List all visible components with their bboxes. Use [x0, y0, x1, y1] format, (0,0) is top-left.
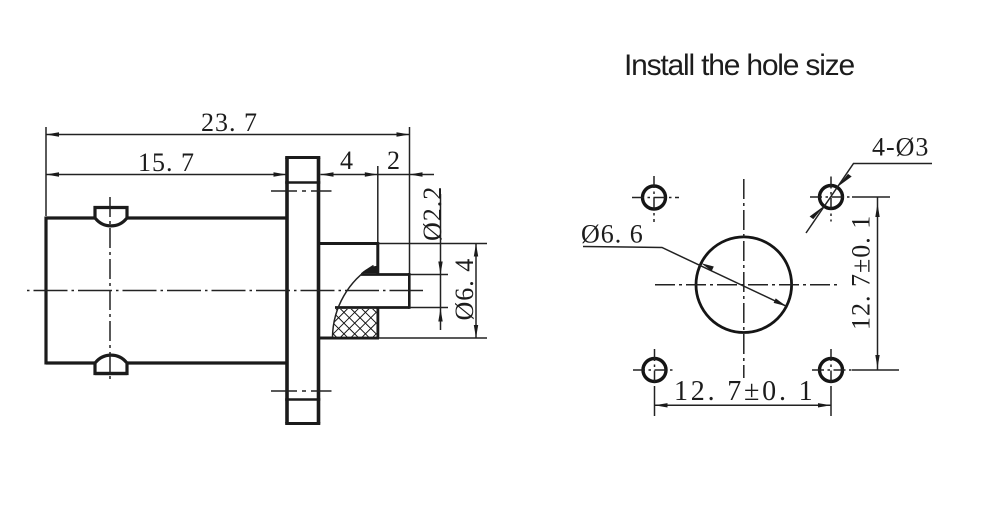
svg-text:Install the hole size: Install the hole size — [624, 49, 854, 82]
extension below bottom-right hole — [830, 388, 832, 416]
extension line left x=46 — [45, 127, 47, 216]
tube end cap — [408, 273, 411, 309]
crosshatched braid block — [332, 309, 376, 337]
center hole horizontal centerline — [655, 284, 837, 286]
rear cylinder top edge — [319, 242, 379, 245]
dimension 12.7±0.1 vertical (right) — [847, 197, 900, 370]
svg-text:2: 2 — [387, 146, 401, 175]
svg-text:4: 4 — [340, 146, 354, 175]
flange (mounting plate) — [287, 158, 319, 424]
dimension 15.7 — [46, 148, 287, 177]
step edge — [376, 242, 379, 275]
svg-text:23. 7: 23. 7 — [201, 108, 258, 137]
flange hole edge lines — [285, 183, 320, 400]
svg-text:15. 7: 15. 7 — [138, 148, 195, 177]
svg-text:Ø6. 6: Ø6. 6 — [581, 220, 644, 249]
dimension Ø2.2 — [410, 186, 449, 330]
svg-text:12. 7±0. 1: 12. 7±0. 1 — [674, 376, 815, 407]
center hole vertical centerline — [743, 179, 745, 378]
dimension 12.7±0.1 horizontal (bottom) — [655, 376, 832, 408]
top bayonet lug — [95, 208, 127, 226]
extension below bottom-left hole — [654, 388, 656, 416]
dimension 23.7 — [46, 108, 410, 137]
extension line right x=409.5 — [409, 127, 411, 273]
mounting hole top-right — [820, 186, 843, 209]
svg-text:12. 7±0. 1: 12. 7±0. 1 — [847, 215, 876, 330]
label 4-Ø3 with leader — [806, 133, 932, 234]
svg-text:Ø6. 4: Ø6. 4 — [450, 258, 479, 321]
extension line x=377.8 upper — [377, 166, 379, 242]
svg-text:4-Ø3: 4-Ø3 — [872, 133, 929, 162]
braid right edge — [376, 308, 379, 339]
label Ø6.6 with leader — [581, 220, 787, 307]
svg-text:Ø2.2: Ø2.2 — [418, 186, 447, 241]
tube bottom / braid top edge — [335, 306, 410, 309]
bottom bayonet lug — [95, 355, 127, 373]
main horizontal centerline — [27, 290, 423, 292]
lug vertical centerline — [109, 197, 111, 381]
tube top edge — [361, 273, 410, 276]
mounting hole bottom-right — [820, 359, 843, 382]
gasket arc — [333, 266, 374, 338]
dimension 4 and 2 — [321, 146, 435, 177]
flange hole centerlines — [271, 191, 332, 391]
dimension Ø6.4 — [378, 244, 487, 339]
center hole circle Ø6.6 — [696, 237, 792, 333]
mounting hole bottom-left — [643, 359, 666, 382]
solder wedge — [361, 266, 379, 274]
mounting hole top-left — [643, 186, 666, 209]
rear cylinder bottom edge — [319, 337, 380, 340]
connector body outline (left view) — [46, 217, 287, 365]
